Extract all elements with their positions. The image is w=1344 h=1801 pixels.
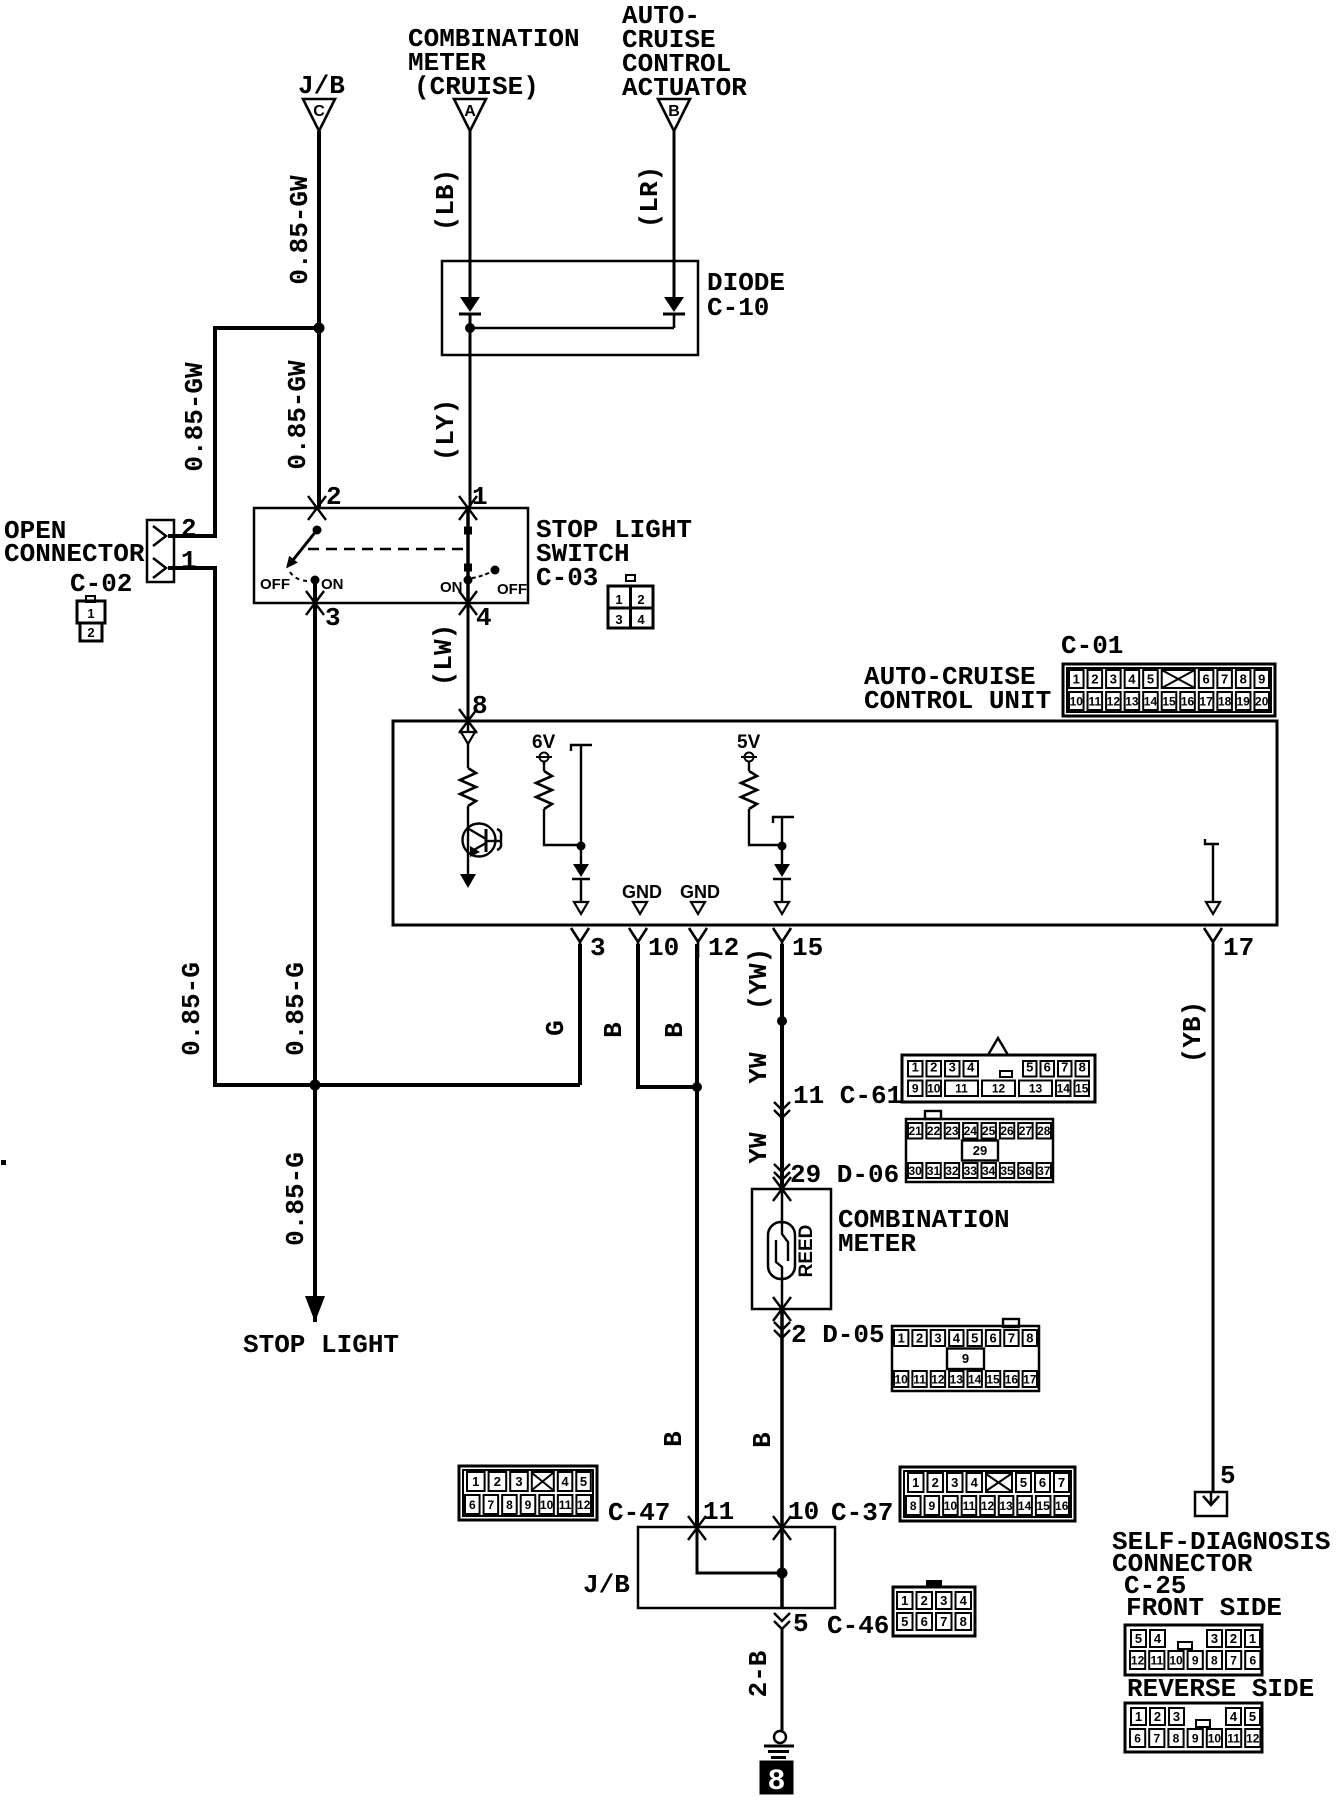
wire inside meter (bottom) — [781, 1279, 784, 1309]
wire 0.85-G switch pin3 to stop light — [313, 580, 317, 1322]
ground reference box 8 — [760, 1761, 793, 1794]
C-03 connector icon — [626, 575, 635, 581]
svg-text:C-37: C-37 — [831, 1498, 893, 1528]
svg-text:2: 2 — [1091, 672, 1098, 687]
internal arrow to pin 3 — [574, 902, 588, 914]
svg-text:(CRUISE): (CRUISE) — [414, 72, 539, 102]
switch pole dot left — [313, 526, 322, 535]
svg-text:2: 2 — [932, 1475, 939, 1490]
contact dot ON right — [464, 576, 473, 585]
connector C-25 reverse side grid — [1125, 1703, 1262, 1752]
svg-text:3: 3 — [949, 1059, 956, 1074]
svg-text:2: 2 — [326, 482, 342, 512]
wire D3 to pin 3 arrow — [580, 879, 582, 902]
svg-text:2: 2 — [930, 1059, 937, 1074]
wire (LW) pin 4 to control unit pin 8 — [467, 603, 470, 721]
svg-text:11: 11 — [1150, 1653, 1163, 1667]
svg-text:18: 18 — [1218, 694, 1232, 708]
internal lead T-bar (5V branch) — [773, 817, 794, 823]
svg-text:6: 6 — [989, 1331, 996, 1346]
svg-text:5: 5 — [580, 1474, 587, 1489]
connector C-37 pin grid — [900, 1467, 1075, 1521]
connector C-01 pin grid — [1063, 664, 1275, 716]
svg-text:C-02: C-02 — [70, 569, 132, 599]
svg-text:13: 13 — [950, 1372, 964, 1386]
svg-text:(LW): (LW) — [429, 624, 459, 686]
ground symbol — [774, 1731, 786, 1743]
svg-text:7: 7 — [488, 1498, 495, 1512]
svg-text:C-46: C-46 — [827, 1611, 889, 1641]
svg-text:20: 20 — [1255, 694, 1269, 708]
svg-text:10: 10 — [1169, 1653, 1183, 1667]
splice dot B wires — [692, 1082, 702, 1092]
svg-text:12: 12 — [1246, 1731, 1260, 1745]
svg-text:(YW): (YW) — [744, 948, 774, 1010]
svg-text:6: 6 — [1134, 1731, 1141, 1745]
svg-text:8: 8 — [472, 691, 488, 721]
open connector terminal 1 — [153, 558, 166, 578]
wire resistor to transistor Q1 — [467, 806, 469, 877]
svg-text:G: G — [541, 1020, 571, 1036]
wire G pin3 to lower junction — [578, 944, 582, 1085]
svg-text:35: 35 — [1000, 1164, 1014, 1178]
pin 17 of C-01 — [1204, 928, 1222, 958]
svg-text:24: 24 — [964, 1124, 978, 1138]
connector C-47 pin grid — [459, 1466, 597, 1520]
transistor Q1 — [463, 824, 496, 857]
svg-text:10: 10 — [944, 1499, 958, 1513]
svg-text:37: 37 — [1037, 1164, 1051, 1178]
svg-text:33: 33 — [964, 1164, 978, 1178]
auto-cruise control unit box — [393, 721, 1277, 925]
svg-text:23: 23 — [945, 1124, 959, 1138]
svg-text:28: 28 — [1037, 1124, 1051, 1138]
wire to resistor R1 — [467, 744, 469, 768]
open connector terminal 2 — [153, 526, 166, 546]
svg-text:OFF: OFF — [497, 581, 527, 598]
svg-text:11: 11 — [1227, 1731, 1240, 1745]
svg-text:REVERSE SIDE: REVERSE SIDE — [1127, 1674, 1314, 1704]
svg-text:OFF: OFF — [260, 576, 290, 593]
svg-text:STOP LIGHT: STOP LIGHT — [243, 1330, 399, 1360]
connector junction C-61 pin 11 — [774, 1102, 790, 1118]
svg-text:16: 16 — [1181, 694, 1195, 708]
svg-text:3: 3 — [951, 1475, 958, 1490]
wire D4 to pin 15 arrow — [781, 879, 783, 902]
svg-text:0.85-G: 0.85-G — [177, 962, 207, 1056]
svg-text:6: 6 — [1249, 1653, 1256, 1667]
svg-text:8: 8 — [1211, 1653, 1218, 1667]
svg-text:7: 7 — [1058, 1475, 1065, 1490]
stop light switch box C-03 — [254, 508, 528, 603]
pin 10 mating mark — [773, 1516, 791, 1540]
svg-text:10: 10 — [895, 1372, 909, 1386]
internal arrow to pin 17 — [1206, 902, 1220, 914]
svg-text:15: 15 — [1075, 1082, 1089, 1096]
wire left diode to junction — [469, 314, 472, 356]
svg-text:2: 2 — [916, 1331, 923, 1346]
connector D-06 pin grid — [925, 1111, 941, 1119]
svg-text:8: 8 — [910, 1499, 917, 1513]
svg-text:12: 12 — [577, 1498, 591, 1512]
svg-text:9: 9 — [962, 1351, 969, 1366]
svg-text:(LR): (LR) — [635, 166, 665, 228]
splice dot in J/B — [777, 1568, 788, 1579]
svg-text:5: 5 — [1249, 1709, 1256, 1724]
svg-text:C-47: C-47 — [608, 1498, 670, 1528]
pin 5 connector junction — [774, 1613, 790, 1629]
resistor R1 — [460, 768, 476, 806]
svg-text:5: 5 — [1020, 1475, 1027, 1490]
svg-text:0.85-G: 0.85-G — [281, 1152, 311, 1246]
svg-text:36: 36 — [1019, 1164, 1033, 1178]
svg-text:12: 12 — [992, 1082, 1006, 1096]
junction dot in diode box — [465, 323, 475, 333]
svg-text:11: 11 — [913, 1372, 926, 1386]
svg-text:2: 2 — [637, 592, 644, 607]
svg-text:3: 3 — [1173, 1709, 1180, 1724]
svg-text:C-03: C-03 — [536, 563, 598, 593]
pin 15 of C-01 — [773, 928, 791, 958]
diode D1 (left) — [460, 297, 480, 312]
diode D3 — [573, 864, 589, 877]
svg-text:1: 1 — [472, 482, 488, 512]
svg-text:7: 7 — [1230, 1653, 1237, 1667]
svg-text:13: 13 — [999, 1499, 1013, 1513]
wire open connector pin 1 to lower junction — [168, 568, 580, 1085]
contact dot OFF right — [491, 566, 500, 575]
internal arrow to pin 15 — [775, 902, 789, 914]
svg-text:5: 5 — [901, 1614, 908, 1629]
wire R3 to junction — [749, 809, 779, 845]
resistor R3 — [741, 771, 757, 809]
svg-text:26: 26 — [1000, 1124, 1014, 1138]
pin 2 mating mark — [308, 496, 326, 520]
junction block J/B box — [638, 1527, 835, 1608]
junction dot lower — [310, 1080, 321, 1091]
meter top mating mark — [773, 1177, 791, 1201]
svg-text:3: 3 — [515, 1474, 522, 1489]
svg-text:10: 10 — [788, 1497, 819, 1527]
svg-text:2-B: 2-B — [744, 1650, 774, 1697]
svg-text:10: 10 — [1208, 1731, 1222, 1745]
svg-text:4: 4 — [1154, 1631, 1162, 1646]
svg-text:10: 10 — [927, 1082, 941, 1096]
svg-text:11: 11 — [1088, 694, 1101, 708]
svg-text:8: 8 — [506, 1498, 513, 1512]
wire T-bar to diode D3 — [580, 745, 582, 864]
svg-text:29: 29 — [973, 1143, 987, 1158]
svg-text:0.85-GW: 0.85-GW — [285, 175, 315, 285]
svg-text:7: 7 — [1153, 1731, 1160, 1745]
svg-text:C-01: C-01 — [1061, 631, 1123, 661]
svg-text:4: 4 — [967, 1059, 975, 1074]
svg-text:6: 6 — [469, 1498, 476, 1512]
svg-text:13: 13 — [1125, 694, 1139, 708]
svg-text:12: 12 — [1131, 1653, 1145, 1667]
connector junction D-06 pin 29 — [774, 1164, 790, 1180]
svg-text:8: 8 — [1079, 1059, 1086, 1074]
svg-text:14: 14 — [1057, 1082, 1071, 1096]
wire J/B pin 11 to splice — [697, 1528, 782, 1573]
svg-text:YW: YW — [744, 1132, 774, 1164]
diode box C-10 outline — [442, 261, 698, 355]
wire 6V to resistor R2 — [543, 761, 545, 771]
svg-text:11: 11 — [955, 1082, 968, 1096]
svg-text:B: B — [660, 1022, 690, 1038]
svg-text:4: 4 — [476, 603, 492, 633]
pin 11 mating mark — [688, 1516, 706, 1540]
svg-text:J/B: J/B — [583, 1570, 630, 1600]
svg-text:9: 9 — [1192, 1653, 1199, 1667]
wire pin1 pole down — [466, 508, 470, 603]
diode D4 — [774, 864, 790, 877]
svg-text:9: 9 — [525, 1498, 532, 1512]
svg-text:11: 11 — [703, 1497, 734, 1527]
svg-text:3: 3 — [325, 603, 341, 633]
svg-text:B: B — [599, 1022, 629, 1038]
svg-text:2: 2 — [494, 1474, 501, 1489]
svg-text:1: 1 — [912, 1475, 919, 1490]
internal lead T-bar (6V branch) — [571, 745, 592, 751]
internal arrow GND pin 12 — [691, 902, 705, 914]
svg-text:1: 1 — [472, 1474, 479, 1489]
svg-text:3: 3 — [940, 1593, 947, 1608]
svg-text:9: 9 — [1258, 672, 1265, 687]
svg-text:14: 14 — [1018, 1499, 1032, 1513]
svg-text:11 C-61: 11 C-61 — [793, 1081, 902, 1111]
svg-text:1: 1 — [912, 1059, 919, 1074]
connector C-46 pin grid — [927, 1581, 941, 1587]
svg-text:3: 3 — [615, 612, 622, 627]
svg-text:11: 11 — [559, 1498, 572, 1512]
svg-text:12: 12 — [1107, 694, 1121, 708]
svg-text:15: 15 — [986, 1372, 1000, 1386]
svg-text:8: 8 — [1240, 672, 1247, 687]
terminal triangle A — [454, 99, 486, 131]
svg-text:32: 32 — [945, 1164, 959, 1178]
svg-text:3: 3 — [1211, 1631, 1218, 1646]
arrow to STOP LIGHT — [305, 1296, 325, 1322]
svg-text:5: 5 — [971, 1331, 978, 1346]
svg-text:27: 27 — [1019, 1124, 1033, 1138]
svg-text:14: 14 — [1144, 694, 1158, 708]
self-diagnosis terminal box — [1195, 1492, 1227, 1516]
svg-text:YW: YW — [744, 1052, 774, 1084]
wire B meter to J/B pin 10 — [780, 1309, 784, 1528]
svg-text:METER: METER — [838, 1229, 916, 1259]
junction dot (5V branch) — [778, 842, 787, 851]
svg-text:0.85-G: 0.85-G — [281, 962, 311, 1056]
reed switch — [768, 1222, 795, 1279]
splice dot on YW — [777, 1016, 787, 1026]
pin 3 of C-01 — [571, 928, 589, 958]
svg-text:3: 3 — [1110, 672, 1117, 687]
wire internal to pin 17 arrow — [1212, 844, 1214, 902]
svg-text:15: 15 — [1036, 1499, 1050, 1513]
dashed arc right — [472, 572, 491, 578]
svg-text:10: 10 — [648, 933, 679, 963]
5V supply node — [745, 753, 754, 762]
svg-text:7: 7 — [940, 1614, 947, 1629]
wire 0.85-GW junction to switch pin 2 — [317, 328, 321, 508]
svg-text:5: 5 — [1220, 1461, 1236, 1491]
internal arrow GND pin 10 — [633, 902, 647, 914]
svg-text:REED: REED — [796, 1225, 817, 1278]
pin 1 mating mark — [459, 496, 477, 520]
svg-text:5: 5 — [1147, 672, 1154, 687]
svg-text:1: 1 — [615, 592, 622, 607]
open connector C-02 box — [147, 520, 174, 582]
wire 0.85-GW from C down to junction — [317, 131, 321, 330]
svg-text:4: 4 — [953, 1331, 961, 1346]
svg-text:8: 8 — [1173, 1731, 1180, 1745]
svg-text:9: 9 — [1192, 1731, 1199, 1745]
wire ON left to pin 3 — [314, 580, 317, 603]
svg-text:17: 17 — [1223, 933, 1254, 963]
svg-text:C-10: C-10 — [707, 293, 769, 323]
svg-text:3: 3 — [934, 1331, 941, 1346]
wire T-bar to diode D4 — [781, 817, 783, 864]
svg-text:12: 12 — [931, 1372, 945, 1386]
stray mark at left margin — [1, 1160, 6, 1165]
C-02 connector icon — [86, 596, 95, 602]
svg-text:0.85-GW: 0.85-GW — [283, 360, 313, 470]
svg-text:5: 5 — [1135, 1631, 1142, 1646]
svg-text:4: 4 — [637, 612, 645, 627]
wire 2-B to ground — [781, 1628, 784, 1731]
svg-text:17: 17 — [1023, 1372, 1037, 1386]
svg-text:C: C — [313, 103, 325, 120]
svg-text:9: 9 — [912, 1082, 919, 1096]
dashed arc left — [290, 572, 309, 581]
svg-text:6V: 6V — [532, 732, 556, 753]
wire (YW) pin 15 down — [780, 944, 784, 1189]
pin 3 mating mark — [306, 591, 324, 615]
svg-text:31: 31 — [927, 1164, 941, 1178]
svg-text:9: 9 — [928, 1499, 935, 1513]
svg-text:15: 15 — [792, 933, 823, 963]
svg-text:2 D-05: 2 D-05 — [791, 1320, 885, 1350]
svg-text:1: 1 — [1249, 1631, 1256, 1646]
svg-text:1: 1 — [181, 546, 197, 576]
svg-text:(YB): (YB) — [1178, 1001, 1208, 1063]
pin 4 mating mark — [459, 591, 477, 615]
svg-text:8: 8 — [767, 1765, 785, 1796]
svg-text:16: 16 — [1005, 1372, 1019, 1386]
dashed mechanical link — [308, 548, 464, 551]
svg-text:15: 15 — [1162, 694, 1176, 708]
svg-text:CONNECTOR: CONNECTOR — [4, 539, 145, 569]
wire into left diode — [469, 262, 472, 298]
svg-text:34: 34 — [982, 1164, 996, 1178]
wire right diode to junction — [673, 314, 676, 328]
wire B pin10 to splice — [638, 944, 697, 1087]
wire junction to left branch — [168, 328, 319, 536]
svg-text:3: 3 — [590, 933, 606, 963]
switch arm left (to OFF) — [293, 530, 317, 560]
svg-text:2: 2 — [181, 514, 197, 544]
svg-text:7: 7 — [1061, 1059, 1068, 1074]
svg-text:1: 1 — [898, 1331, 905, 1346]
pin 10 of C-01 — [629, 928, 647, 958]
combination meter box — [752, 1189, 831, 1309]
svg-text:A: A — [464, 103, 476, 120]
wire into right diode — [673, 262, 676, 298]
svg-text:2: 2 — [1154, 1709, 1161, 1724]
svg-text:30: 30 — [909, 1164, 923, 1178]
svg-text:1: 1 — [1135, 1709, 1142, 1724]
svg-text:5: 5 — [793, 1609, 809, 1639]
svg-text:(LB): (LB) — [431, 169, 461, 231]
svg-text:17: 17 — [1199, 694, 1213, 708]
svg-text:6: 6 — [1044, 1059, 1051, 1074]
6V supply node — [540, 753, 549, 762]
svg-text:GND: GND — [622, 882, 662, 902]
connector junction D-05 pin 2 — [774, 1322, 790, 1338]
svg-text:B: B — [748, 1432, 778, 1448]
junction dot (6V branch) — [577, 842, 586, 851]
wire B pin12 to J/B pin 11 — [695, 944, 699, 1528]
wire (LB) from A to diode box — [469, 131, 472, 262]
internal arrow from pin 8 — [467, 721, 469, 732]
internal lead (pin 17) — [1205, 839, 1219, 844]
svg-text:J/B: J/B — [298, 71, 345, 101]
svg-text:21: 21 — [909, 1124, 923, 1138]
pin 8 mating mark — [459, 709, 477, 733]
svg-text:4: 4 — [561, 1474, 569, 1489]
wire R2 to junction — [544, 809, 578, 845]
resistor R2 — [536, 771, 552, 809]
svg-text:10: 10 — [540, 1498, 554, 1512]
svg-text:12: 12 — [981, 1499, 995, 1513]
wire inside meter (top) — [781, 1189, 784, 1224]
svg-text:7: 7 — [1221, 672, 1228, 687]
wire 5V to resistor R3 — [748, 761, 750, 771]
wire (YB) pin 17 to self-diagnosis — [1212, 944, 1215, 1492]
contact dot ON left — [311, 576, 320, 585]
connector C-61 pin grid — [988, 1038, 1008, 1055]
svg-text:4: 4 — [1128, 672, 1136, 687]
svg-text:1: 1 — [1073, 672, 1080, 687]
svg-text:4: 4 — [960, 1593, 968, 1608]
svg-text:ON: ON — [440, 579, 463, 596]
svg-text:B: B — [659, 1431, 689, 1447]
svg-text:12: 12 — [708, 933, 739, 963]
svg-text:6: 6 — [1202, 672, 1209, 687]
svg-text:19: 19 — [1237, 694, 1251, 708]
svg-text:7: 7 — [1008, 1331, 1015, 1346]
contact square upper right — [465, 527, 472, 534]
svg-text:4: 4 — [971, 1475, 979, 1490]
svg-text:CONTROL UNIT: CONTROL UNIT — [864, 686, 1051, 716]
diode D2 (right) — [664, 297, 684, 312]
svg-text:FRONT SIDE: FRONT SIDE — [1126, 1593, 1282, 1623]
svg-text:14: 14 — [968, 1372, 982, 1386]
svg-text:25: 25 — [982, 1124, 996, 1138]
svg-text:1: 1 — [87, 606, 94, 621]
svg-text:1: 1 — [901, 1593, 908, 1608]
wire junction to right diode — [470, 327, 674, 330]
wire (LY) diode box to stop light switch pin 1 — [469, 355, 472, 508]
svg-text:8: 8 — [960, 1614, 967, 1629]
svg-text:10: 10 — [1070, 694, 1084, 708]
svg-text:16: 16 — [1055, 1499, 1069, 1513]
svg-text:2: 2 — [1230, 1631, 1237, 1646]
emitter arrow of Q1 — [460, 874, 476, 888]
svg-text:29 D-06: 29 D-06 — [790, 1160, 899, 1190]
svg-text:ON: ON — [321, 576, 344, 593]
